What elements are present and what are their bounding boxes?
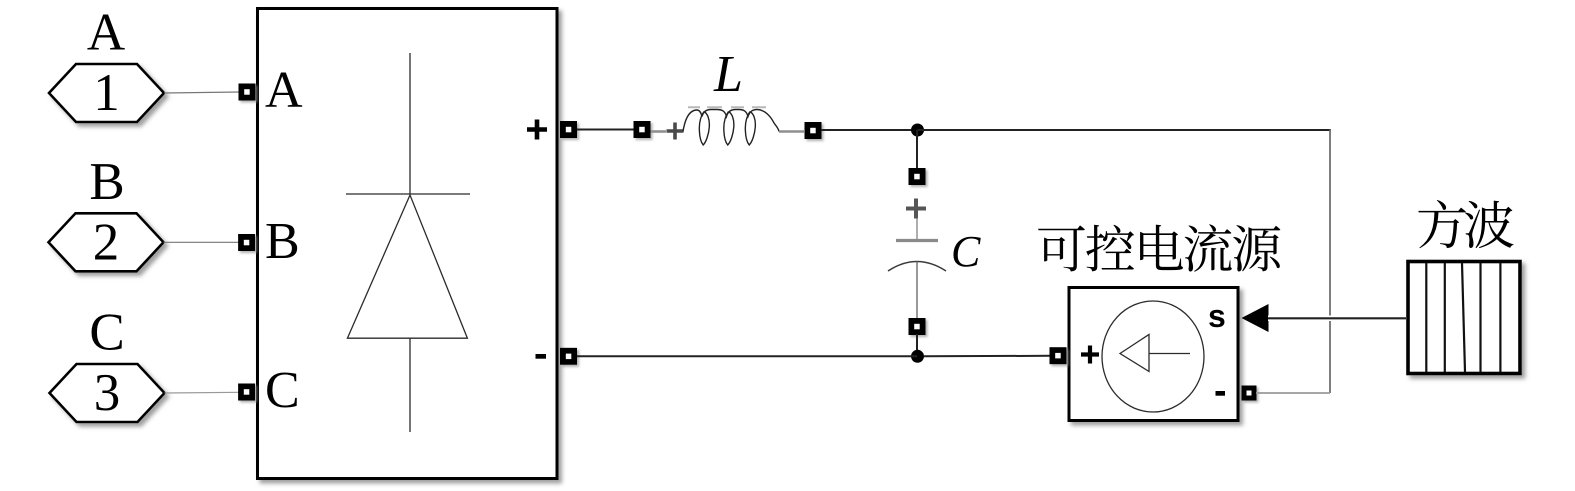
svg-text:3: 3	[94, 364, 121, 422]
wire junction down to capacitor port	[916, 130, 918, 169]
wire junction to right corner	[918, 129, 1331, 131]
right riser wire down to - return	[1329, 129, 1331, 393]
svg-text:1: 1	[93, 64, 120, 122]
wire port 2 to rectifier input B	[164, 241, 241, 243]
svg-text:B: B	[265, 213, 300, 270]
inductor right port square	[805, 122, 822, 139]
rectifier + output port square	[560, 121, 577, 138]
controlled current source block U1	[1069, 288, 1238, 421]
junction node on + rail	[911, 124, 924, 137]
inductor left port square	[634, 121, 651, 138]
current source - label	[1216, 391, 1226, 396]
wire junction to current source +	[924, 355, 1051, 358]
rectifier input port square B	[238, 234, 255, 251]
rectifier input port square C	[238, 384, 255, 401]
current source left port square	[1050, 347, 1067, 364]
capacitor bottom port square	[909, 318, 926, 335]
svg-text:A: A	[265, 62, 303, 119]
svg-text:L: L	[713, 46, 743, 103]
current source arrow	[1120, 335, 1149, 372]
svg-text:C: C	[951, 227, 981, 276]
square wave source block 方波	[1408, 262, 1520, 374]
rectifier - output port square	[560, 348, 577, 365]
svg-text:B: B	[89, 153, 124, 211]
inductor left gray stub	[651, 130, 667, 133]
svg-text:2: 2	[93, 213, 120, 271]
wire inductor to junction	[821, 129, 917, 131]
current source bottom right port square	[1242, 386, 1257, 401]
inductor right gray stub	[779, 130, 804, 133]
gray wire - port to right riser	[1256, 392, 1330, 394]
rectifier - output label	[536, 354, 547, 359]
rectifier + output label	[527, 120, 547, 140]
diode symbol: cathode line	[409, 338, 411, 432]
capacitor top lead	[916, 218, 918, 239]
junction node on - rail	[911, 350, 924, 363]
rectifier input port square A	[239, 84, 256, 101]
capacitor bottom curved plate	[888, 262, 946, 272]
wire rectifier - to junction	[577, 355, 917, 357]
wire square wave to arrowhead (s input)	[1268, 316, 1406, 322]
current source circle	[1102, 301, 1204, 412]
current source + label	[1081, 346, 1099, 364]
capacitor top plate	[896, 239, 938, 242]
inductor L coil	[683, 110, 779, 132]
input port block B (hexagon "2")	[49, 213, 164, 271]
controlled current source label 可控电流源	[1038, 225, 1085, 271]
wire port 3 to rectifier input C	[165, 391, 241, 394]
three-phase diode rectifier block (Universal Bridge)	[258, 9, 558, 479]
svg-text:C: C	[89, 304, 124, 362]
square wave icon vertical lines	[1426, 263, 1500, 372]
input port block A (hexagon "1")	[49, 64, 164, 122]
svg-text:s: s	[1208, 298, 1226, 334]
wire port 1 to rectifier input A	[164, 92, 240, 93]
capacitor + polarity mark	[906, 199, 926, 219]
inductor + polarity mark	[667, 123, 684, 140]
svg-text:A: A	[87, 4, 125, 62]
stub capacitor port to junction	[916, 334, 918, 356]
diode symbol: cathode bar	[346, 193, 470, 195]
input port block C (hexagon "3")	[50, 364, 165, 422]
diode symbol: anode line	[409, 53, 411, 194]
svg-text:C: C	[265, 362, 300, 419]
wire rectifier + to inductor	[577, 129, 635, 131]
diode symbol: triangle	[347, 195, 467, 338]
capacitor bottom lead	[916, 261, 918, 318]
capacitor top port square	[909, 168, 926, 185]
signal arrowhead into s port	[1242, 304, 1269, 332]
square wave label 方波	[1418, 200, 1465, 248]
